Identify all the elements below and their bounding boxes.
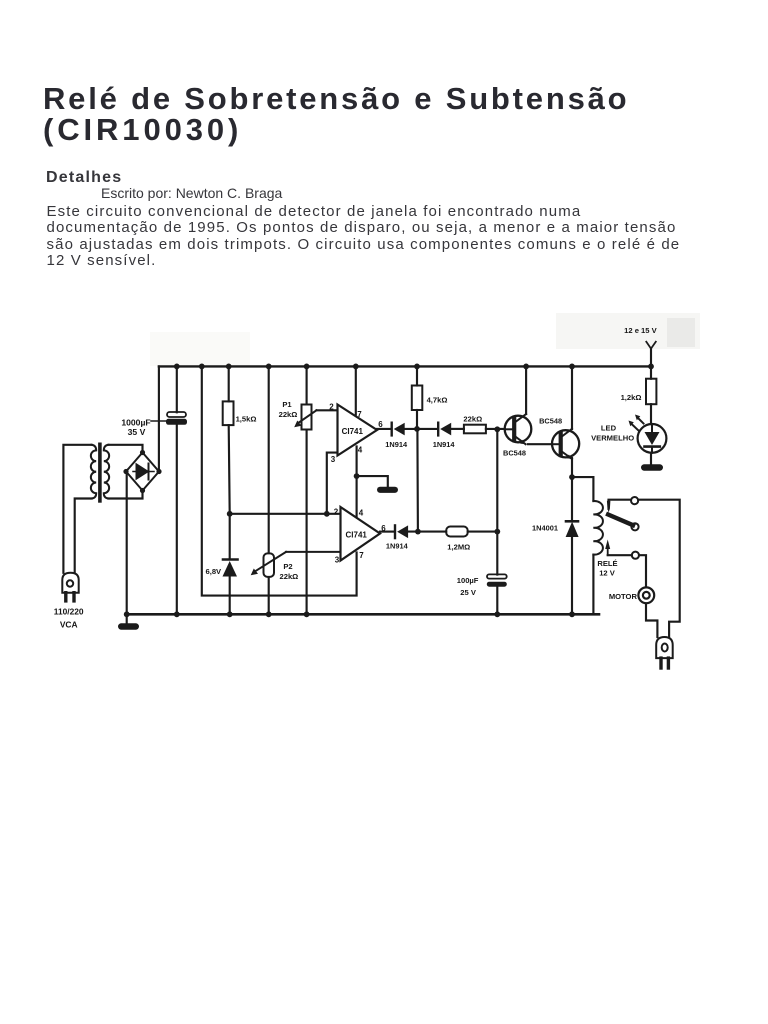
wire relay coil top feed — [572, 477, 593, 501]
ground LED — [641, 464, 663, 470]
svg-text:P1: P1 — [282, 400, 292, 409]
ground bottom-left — [118, 623, 139, 629]
svg-text:1N914: 1N914 — [433, 440, 456, 449]
wire Q2 emitter down / relay feed — [571, 458, 573, 521]
diode D3 1N914 (U2 output) — [395, 525, 408, 538]
ground stub bottom-left — [126, 614, 128, 623]
wire transformer secondary top to bridge — [109, 445, 143, 453]
motor — [638, 587, 654, 603]
svg-text:7: 7 — [357, 410, 362, 419]
relay armature — [608, 515, 633, 526]
wire motor to plug — [646, 604, 657, 637]
wire U1 pin4 to U2 pin4 with ground tap — [356, 447, 358, 518]
transistor Q1 BC548 — [505, 414, 532, 444]
LED supply antenna — [646, 342, 656, 349]
svg-text:1N914: 1N914 — [385, 440, 408, 449]
junction dots bottom rail — [124, 611, 575, 617]
transistor Q2 BC548 — [552, 429, 579, 459]
svg-text:1N4001: 1N4001 — [532, 523, 558, 532]
wire bridge left corner to bottom rail — [126, 472, 128, 615]
wire detour rail-to-pin7 of U2 : down — [202, 366, 357, 595]
capacitor 1000uF 35V — [151, 412, 187, 425]
wire P1 top vertical — [306, 366, 308, 404]
svg-text:RELÉ: RELÉ — [597, 559, 617, 568]
wire top rail — [159, 365, 651, 367]
wire P2 top vertical — [268, 366, 270, 553]
svg-text:3: 3 — [335, 556, 340, 565]
wire capacitor 1000uF vertical — [176, 366, 178, 412]
wire U2 output row — [380, 531, 393, 533]
svg-text:CI741: CI741 — [346, 531, 368, 540]
resistor 1.5k — [223, 401, 234, 425]
resistor 1.2k — [646, 379, 656, 405]
svg-text:22kΩ: 22kΩ — [463, 414, 482, 423]
zener 6.8V — [223, 560, 238, 577]
wire U1 output row — [377, 428, 391, 430]
svg-text:1N914: 1N914 — [386, 542, 409, 551]
svg-text:6,8V: 6,8V — [205, 567, 222, 576]
svg-text:110/220: 110/220 — [54, 607, 84, 617]
svg-text:12 e 15 V: 12 e 15 V — [624, 326, 657, 335]
svg-text:4,7kΩ: 4,7kΩ — [427, 396, 448, 405]
wire 4.7k chain — [416, 366, 418, 385]
wire Q1 emitter to Q2 base — [528, 443, 552, 445]
relay contact C3 — [632, 552, 639, 559]
svg-text:1,2MΩ: 1,2MΩ — [447, 542, 470, 551]
wire transformer primary bottom — [75, 499, 92, 573]
wire reference node horizontal — [230, 513, 341, 515]
LED emission arrows — [629, 415, 644, 431]
transformer T1 — [91, 444, 109, 501]
svg-text:3: 3 — [331, 455, 336, 464]
resistor 22k (horizontal) — [464, 425, 486, 434]
svg-text:35 V: 35 V — [128, 427, 146, 437]
LED — [638, 424, 667, 453]
wire LED branch — [650, 349, 652, 367]
relay contact C1 — [631, 497, 638, 504]
op-amp U2 CI741 — [341, 507, 381, 561]
svg-text:7: 7 — [359, 551, 364, 560]
wire Q1 base node vertical — [496, 429, 498, 531]
svg-text:LED: LED — [601, 423, 617, 432]
relay coil — [593, 501, 603, 555]
svg-text:6: 6 — [381, 524, 386, 533]
svg-text:22kΩ: 22kΩ — [279, 410, 298, 419]
svg-text:MOTOR: MOTOR — [609, 592, 638, 601]
svg-text:22kΩ: 22kΩ — [280, 572, 299, 581]
wire Q2 collector to rail — [571, 366, 573, 429]
svg-text:P2: P2 — [283, 562, 292, 571]
svg-text:4: 4 — [358, 446, 363, 455]
svg-text:4: 4 — [359, 509, 364, 518]
wire inter-diode node down to U2 output node — [416, 429, 419, 532]
ground mid (op-amp supply node) — [377, 487, 398, 493]
svg-text:2: 2 — [329, 403, 334, 412]
wire contact C1 row — [609, 500, 632, 509]
trimpot P2 — [251, 552, 341, 577]
plug left (110/220 VCA) — [62, 573, 78, 601]
junction dots bridge corners — [123, 450, 161, 493]
wire transformer secondary bottom to bridge — [109, 491, 143, 499]
wire 100uF chain — [496, 532, 498, 575]
wire U1 pin3 to reference node — [327, 453, 338, 514]
wire contact C3 row — [608, 554, 632, 556]
svg-text:6: 6 — [378, 420, 383, 429]
resistor 4.7k — [412, 386, 423, 411]
plug right — [656, 637, 673, 668]
diode D4 1N4001 — [566, 521, 579, 537]
svg-text:BC548: BC548 — [503, 448, 526, 457]
wire Q1 collector to rail — [525, 366, 527, 414]
svg-text:1,5kΩ: 1,5kΩ — [236, 414, 257, 423]
wire P1 bottom vertical — [306, 430, 308, 615]
wire P2 bottom vertical — [268, 577, 270, 614]
wire 1.5k / zener chain — [228, 366, 230, 401]
relay actuation arrow — [605, 540, 610, 556]
wire relay coil bottom to rail — [592, 555, 594, 615]
relay pivot tick — [607, 501, 611, 513]
svg-text:BC548: BC548 — [539, 416, 562, 425]
bridge rectifier — [126, 453, 159, 491]
svg-text:VCA: VCA — [60, 619, 78, 629]
wire bridge right corner to top rail — [158, 366, 160, 471]
svg-text:CI741: CI741 — [342, 427, 364, 436]
junction dots top rail — [174, 364, 654, 370]
op-amp U1 CI741 — [338, 405, 378, 456]
wire transformer primary top — [63, 445, 91, 573]
wire bottom rail — [127, 613, 599, 616]
wire ground tap horizontal — [357, 476, 388, 487]
svg-text:VERMELHO: VERMELHO — [591, 434, 634, 443]
svg-text:1,2kΩ: 1,2kΩ — [621, 393, 642, 402]
relay contact C2 — [631, 523, 638, 530]
svg-text:2: 2 — [334, 508, 339, 517]
svg-text:25 V: 25 V — [460, 588, 477, 597]
junction dots misc — [227, 426, 575, 534]
svg-text:100µF: 100µF — [457, 576, 479, 585]
diode D2 1N914 — [438, 423, 451, 436]
resistor 1.2M (horizontal) — [446, 527, 468, 537]
wire U1 pin7 to rail — [355, 366, 357, 414]
capacitor 100uF 25V — [487, 574, 507, 586]
trimpot P1 — [294, 405, 316, 430]
svg-text:12 V: 12 V — [599, 569, 616, 578]
diode D1 1N914 — [392, 423, 405, 436]
wire P1 wiper to U1 pin2 — [317, 409, 338, 411]
